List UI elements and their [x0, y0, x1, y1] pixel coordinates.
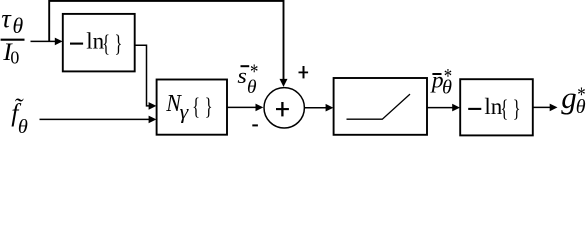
wire summer output into saturation block: [305, 107, 329, 109]
wire input tau/I0 into block U1: [31, 40, 57, 42]
svg-text:}: }: [205, 92, 213, 120]
plus sign inside summer: [276, 102, 289, 116]
svg-text:θ: θ: [18, 116, 28, 138]
svg-text:0: 0: [10, 48, 19, 68]
svg-text:{: {: [102, 29, 110, 57]
wire f_theta into N block lower input: [40, 118, 152, 120]
svg-text:τ: τ: [1, 3, 12, 33]
wire N output into summer: [227, 106, 258, 108]
node p_bar_star_theta label: [430, 66, 452, 99]
svg-text:γ: γ: [180, 100, 189, 123]
svg-text:θ: θ: [247, 77, 257, 98]
block U4 -ln{ }: [460, 79, 533, 135]
svg-text:{: {: [500, 94, 508, 122]
arrowhead into summer top: [280, 79, 288, 87]
node s_bar_star_theta label: [237, 61, 258, 98]
wire U1 output down into N block upper input: [135, 45, 151, 106]
node g_star_theta output label: [561, 80, 585, 118]
node f_tilde_theta input label: [11, 98, 28, 138]
svg-text:{: {: [192, 92, 200, 120]
node tau_theta over I_0 input label: [1, 3, 25, 68]
block U2 N_gamma{ }: [157, 80, 227, 135]
block U1 -ln{ }: [63, 14, 135, 72]
plus label at summer top input: [299, 66, 309, 78]
svg-text:g: g: [561, 80, 576, 115]
summing junction circle: [264, 88, 304, 128]
svg-text:θ: θ: [576, 96, 586, 118]
wire feedforward branch to top: [49, 1, 283, 80]
svg-text:θ: θ: [13, 14, 24, 38]
svg-text:}: }: [115, 29, 123, 57]
U4 text minus: [468, 108, 481, 110]
svg-text:}: }: [513, 94, 521, 122]
minus sign label at summer left input: [252, 124, 258, 126]
wire final output g: [533, 106, 552, 108]
wire saturation output into block U4: [427, 107, 455, 109]
U1 text minus: [70, 43, 83, 45]
svg-text:θ: θ: [442, 76, 452, 98]
saturation (relu) curve: [347, 94, 411, 119]
block U3 saturation: [334, 78, 427, 135]
